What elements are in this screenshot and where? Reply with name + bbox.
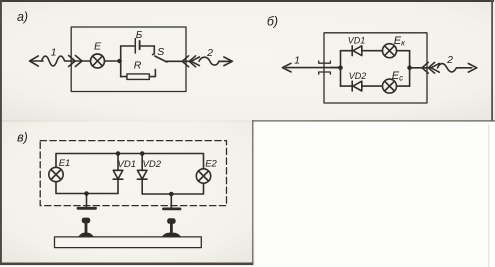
photo right border [491,0,493,121]
chevron << at box exit [422,62,435,73]
right branch vertical [409,51,411,86]
wire lamp to node [105,60,120,62]
lamp E [91,54,105,68]
svg-text:E2: E2 [205,159,217,170]
svg-text:VD1: VD1 [118,159,136,170]
arrowhead left (track 2) [191,57,199,66]
junction node right [407,66,412,71]
svg-text:VD2: VD2 [349,71,367,81]
wire down to rail 1 [86,194,88,208]
wire diode to lamp [362,85,383,87]
top branch wire battery to corner [141,45,155,47]
wire to box exit [167,60,192,62]
diode VD1 cathode bar [351,46,353,56]
junction node VD1 top [116,151,121,156]
diode VD2 [353,81,362,91]
wire down to rail 2 [170,194,172,208]
arrowhead right (track 2) [224,57,233,66]
lamp E1 [49,167,63,181]
upper branch wire to right [397,50,410,52]
junction node left [338,66,343,71]
top branch wire to battery [121,45,135,47]
rail cross-section right [162,218,182,237]
enclosure box (a) [71,27,186,92]
enclosure box (b) [324,33,427,103]
lower branch wire [341,85,353,87]
junction node VD2 top [140,151,145,156]
photo bottom border [0,263,254,266]
wire into box [67,60,91,62]
switch fixed contact [153,46,155,55]
lamp Ec [383,79,397,93]
diode VD2 (down) [141,154,143,171]
junction node bottom right [169,192,174,197]
svg-text:2: 2 [446,54,453,66]
wire joint to node [330,67,340,69]
photo top border [0,0,494,2]
wire to box exit [410,67,430,69]
svg-text:R: R [134,60,142,72]
lamp Ek [383,44,397,58]
bottom wire right pair [142,183,203,194]
arrowhead left (track 1) [30,56,39,66]
dashed enclosure [40,141,226,206]
svg-text:б): б) [267,14,278,28]
bottom wire left pair [56,182,118,194]
rail bond bar left [78,207,96,210]
chevron >> at box entry [69,56,82,67]
wavy track connection 2 [438,64,472,72]
white area top edge [252,120,495,121]
wire: left lead of track 1 [31,60,43,62]
junction node bottom left [84,191,89,196]
insulated joint upper bar [319,61,331,63]
wavy track connection 2 [199,57,227,65]
svg-text:1: 1 [294,54,300,66]
battery B short plate [139,41,141,49]
arrowhead left (1) [282,63,291,72]
photo left border [0,0,2,265]
wire diode to lamp [362,50,383,52]
svg-text:2: 2 [206,47,213,59]
top bus wire [56,154,204,169]
wire left lead 1 [286,67,341,69]
wire right lead of track 2 [219,60,231,62]
svg-text:VD2: VD2 [143,159,162,170]
svg-text:Б: Б [136,30,143,41]
svg-text:а): а) [17,10,28,24]
switch S blade [155,56,167,62]
svg-text:1: 1 [51,47,57,59]
diode VD2 cathode bar [351,81,353,91]
svg-text:VD1: VD1 [348,35,366,45]
bottom branch wire to resistor [121,76,127,78]
arrowhead left (track 2) [431,63,439,72]
diode VD1 (down) [117,154,119,171]
insulated joint lower bar [319,72,331,74]
bottom branch wire from resistor [149,70,155,77]
lower branch wire to right [397,85,410,87]
left branch vertical [120,46,122,77]
upper branch wire [341,50,353,52]
rail cross-section left [78,218,94,237]
resistor R [127,74,149,80]
lamp E2 [196,169,210,183]
wavy track connection 1 [42,56,67,66]
battery B long plate [134,39,136,54]
chevron << at box exit [182,56,195,67]
svg-text:в): в) [17,130,28,144]
svg-text:E: E [94,40,102,52]
rail (side view) [55,237,202,248]
junction node [117,59,122,64]
diode VD1 [353,46,362,56]
left branch vertical [340,51,342,86]
svg-text:E1: E1 [59,158,71,169]
arrowhead right (track 2) [468,64,477,73]
svg-text:S: S [157,46,164,58]
rail bond bar right [164,207,181,210]
faint scan streak in white area [488,124,489,267]
white area left edge [252,120,253,264]
